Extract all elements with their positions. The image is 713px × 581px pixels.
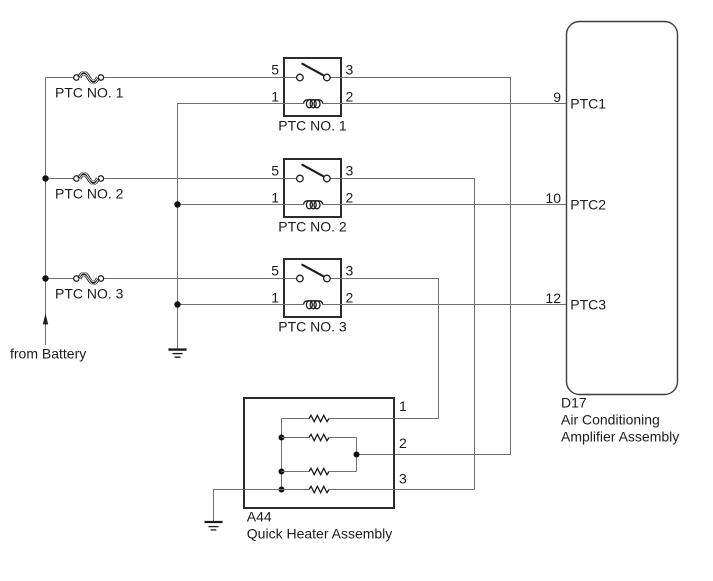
wire heater row3 to link	[329, 471, 357, 473]
resistor R2	[309, 434, 329, 440]
wire relay2 pin1 to ground bus	[178, 204, 284, 206]
wire relay3 pin3 to heater pin1	[342, 279, 439, 419]
relay2 switch arm	[302, 165, 323, 176]
svg-text:5: 5	[271, 263, 279, 279]
svg-text:3: 3	[346, 263, 354, 279]
relay K2 box PTC NO. 2	[284, 159, 341, 217]
svg-text:9: 9	[553, 89, 561, 105]
relay K1 box PTC NO. 1	[284, 58, 341, 116]
svg-text:Air Conditioning: Air Conditioning	[561, 411, 660, 427]
svg-text:3: 3	[399, 470, 407, 486]
resistor R4	[309, 486, 329, 492]
wire relay3 pin2 to D17 pin 12	[342, 304, 567, 306]
node ground bus relay2 junction	[174, 201, 180, 207]
svg-text:PTC2: PTC2	[570, 197, 606, 213]
svg-text:10: 10	[545, 190, 561, 206]
svg-text:Quick Heater Assembly: Quick Heater Assembly	[247, 526, 392, 542]
wire heater row1 to pin1	[329, 418, 439, 420]
fuse PTC NO. 3	[74, 273, 104, 285]
fuse PTC NO. 2	[74, 173, 104, 185]
ground G1 relay coils	[168, 350, 186, 358]
svg-text:PTC NO. 1: PTC NO. 1	[55, 85, 124, 101]
node heater bus row3	[279, 469, 285, 475]
wire relay2 pin2 to D17 pin 10	[342, 204, 567, 206]
svg-text:1: 1	[271, 89, 279, 105]
wire heater left bus	[281, 419, 283, 490]
ground G2 heater	[205, 522, 223, 530]
wire heater row4 left	[282, 489, 310, 491]
svg-text:PTC NO. 2: PTC NO. 2	[55, 186, 124, 202]
svg-text:2: 2	[346, 89, 354, 105]
svg-text:PTC3: PTC3	[570, 297, 606, 313]
svg-text:2: 2	[346, 190, 354, 206]
node battery junction fuse3	[42, 275, 48, 281]
wire relay2 switch row internal	[284, 178, 297, 180]
wire relay1 switch row internal	[284, 77, 297, 79]
svg-text:PTC NO. 2: PTC NO. 2	[278, 219, 347, 235]
wire fuse1 to relay1 pin5	[104, 77, 284, 79]
node heater bus row2	[279, 435, 285, 441]
wire relay3 switch row internal	[284, 278, 297, 280]
resistor R3	[309, 468, 329, 474]
svg-text:D17: D17	[561, 394, 587, 410]
resistor R1	[309, 415, 329, 421]
relay3 coil	[284, 301, 342, 309]
node ground bus relay3 junction	[174, 301, 180, 307]
svg-text:PTC NO. 3: PTC NO. 3	[55, 286, 124, 302]
svg-text:5: 5	[271, 62, 279, 78]
wire heater row3 left	[282, 471, 310, 473]
svg-text:3: 3	[346, 163, 354, 179]
svg-text:1: 1	[399, 398, 407, 414]
wire relay1 pin3 to heater pin2	[342, 78, 511, 455]
wire relay1 pin2 to D17 pin 9	[342, 103, 567, 105]
wire relay coil ground bus	[178, 104, 284, 349]
svg-text:5: 5	[271, 163, 279, 179]
relay1 switch arm	[302, 64, 323, 75]
wire heater row4 to ground	[214, 490, 282, 522]
wire fuse3 to relay3 pin5	[104, 278, 284, 280]
svg-text:PTC NO. 3: PTC NO. 3	[278, 319, 347, 335]
node heater bus row4	[279, 487, 285, 493]
wire battery to fuse3	[46, 278, 74, 280]
node battery junction fuse2	[42, 175, 48, 181]
wire relay3 pin1 to ground bus	[178, 304, 284, 306]
svg-text:from Battery: from Battery	[10, 346, 86, 362]
wire heater row2 left	[282, 437, 310, 439]
fuse PTC NO. 1	[74, 72, 104, 84]
connector D17 box	[567, 22, 678, 395]
wire heater link vertical	[356, 438, 358, 472]
svg-text:PTC NO. 1: PTC NO. 1	[278, 118, 347, 134]
arrow from-battery pointing up	[43, 314, 48, 325]
svg-text:2: 2	[399, 435, 407, 451]
svg-text:1: 1	[271, 190, 279, 206]
svg-text:Amplifier Assembly: Amplifier Assembly	[561, 429, 679, 445]
svg-text:2: 2	[346, 290, 354, 306]
relay2 switch contact circles	[297, 175, 304, 182]
heater A44 box	[244, 398, 394, 508]
svg-text:A44: A44	[247, 509, 272, 525]
wire battery feed vertical bus	[45, 78, 47, 346]
wire battery to fuse2	[46, 178, 74, 180]
wire heater row1 left	[282, 418, 310, 420]
relay1 coil	[284, 100, 342, 108]
wire heater row4 to pin3	[329, 489, 475, 491]
svg-text:PTC1: PTC1	[570, 96, 606, 112]
relay3 switch contact circles	[297, 275, 304, 282]
wire fuse2 to relay2 pin5	[104, 178, 284, 180]
relay K3 box PTC NO. 3	[284, 259, 341, 317]
wire battery to fuse1	[46, 77, 74, 79]
relay2 coil	[284, 201, 342, 209]
node heater pin2 junction	[354, 452, 360, 458]
svg-text:3: 3	[346, 62, 354, 78]
relay3 switch arm	[302, 265, 323, 276]
relay1 switch contact circles	[297, 74, 304, 81]
wire relay2 pin3 to heater pin3	[342, 179, 475, 490]
svg-text:1: 1	[271, 290, 279, 306]
wire heater row2 to link	[329, 437, 357, 439]
svg-text:12: 12	[545, 290, 561, 306]
